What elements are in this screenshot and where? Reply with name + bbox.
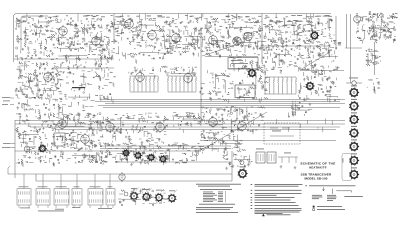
tube V27 lamp (119, 172, 125, 182)
tube V10 (354, 14, 361, 24)
wire bus y174 (8, 173, 232, 175)
wire mid bus3 (103, 107, 340, 109)
wire v x114 (113, 14, 115, 45)
node bottom small parts (118, 188, 168, 206)
wire h y46 right (262, 45, 330, 47)
note under title (305, 184, 307, 187)
relay K1 box (235, 85, 255, 98)
node B6 (262, 44, 301, 73)
node socket index outline (342, 154, 352, 181)
node socket header (346, 78, 362, 86)
tube V3 (125, 18, 134, 30)
wire v x232 low (231, 151, 233, 181)
tube socket V12 (306, 82, 315, 91)
wire bus y162 (115, 161, 232, 163)
wire col feed a (346, 14, 348, 48)
node B8 right parts (366, 48, 381, 66)
tube socket V9 (310, 31, 319, 40)
node C5 (237, 65, 269, 103)
tube socket S3 (349, 112, 359, 124)
node coil bar (72, 87, 85, 88)
wire top bus stubs (27, 14, 313, 22)
symbol legend filled (313, 206, 315, 208)
node D6 (201, 133, 246, 156)
node switch comb3 (264, 77, 296, 94)
node D5 (164, 143, 204, 164)
wire mid bus1b (95, 101, 340, 103)
transformer T4 (72, 186, 82, 208)
tube socket S7 (349, 167, 359, 179)
wire coil drops (23, 174, 25, 189)
wire left rail2 (21, 16, 48, 50)
node output stage (240, 149, 298, 170)
node A7 stage (225, 18, 264, 49)
tube V23 (81, 133, 90, 145)
wire diag2 (300, 52, 330, 70)
wire v x201 (200, 30, 202, 122)
wire bus y140 (200, 140, 336, 142)
wire mid bus2b (98, 105, 300, 107)
wire bus y151 (15, 150, 201, 152)
node A2 mixer (55, 18, 103, 47)
wire h y70 right (300, 70, 344, 72)
wire v x262 (261, 14, 263, 63)
tube socket V24 wafer a (122, 149, 130, 157)
node switch comb1 (129, 76, 158, 92)
tube V20 (209, 116, 218, 128)
wire v x336 (335, 16, 337, 48)
tube V2 (92, 35, 101, 47)
tube socket V22 rotary (39, 144, 47, 152)
node right corner small parts (367, 79, 379, 94)
node A10 corner stage (356, 11, 398, 43)
wire v x15 low (14, 120, 16, 178)
tube socket V26 wafer c (147, 154, 155, 162)
node D1 (16, 130, 59, 167)
wire main busA (15, 120, 345, 122)
wire right rail (374, 42, 376, 75)
node B7 (300, 40, 341, 75)
node A6 stage (200, 18, 225, 51)
wire col feed b (350, 14, 352, 83)
node left margin terminals2 (2, 143, 15, 148)
wire bus y181 (36, 180, 232, 182)
node A3 if amp (100, 18, 139, 46)
tree text block 3 (344, 195, 363, 198)
node left margin terminals (2, 97, 14, 105)
tube V1 (59, 25, 68, 37)
tube socket S8 relay socket (238, 166, 248, 178)
parts list column (196, 184, 241, 213)
tube V16 (184, 72, 193, 84)
wire diag3 (202, 42, 245, 56)
node B3 (164, 42, 198, 57)
tube V13 (44, 71, 53, 83)
node A5 stage (168, 18, 203, 51)
coil row labels (38, 210, 64, 213)
title block (300, 162, 335, 181)
tube socket S2 (349, 99, 359, 111)
transformer T2 (36, 186, 50, 208)
symbol legend open (313, 209, 315, 211)
tree text block 1 (312, 195, 323, 199)
switch position tree (323, 187, 352, 194)
tube socket S1 (349, 85, 359, 97)
node rotary wafer row (124, 188, 177, 203)
tube V17 (58, 118, 67, 130)
node labels mixer area (269, 20, 310, 22)
tube V5 (172, 32, 181, 44)
node C1 left-mid dense (15, 72, 64, 104)
tube socket V25 wafer b (134, 152, 142, 160)
node C10 small (288, 100, 312, 117)
node C6 (298, 67, 339, 102)
node D4 (103, 130, 167, 144)
tube V28 meter (24, 144, 30, 153)
tube socket V26b wafer d (159, 155, 167, 163)
tube V21 (238, 120, 247, 132)
transformer T3 (54, 186, 69, 208)
wire col h48 (345, 47, 362, 49)
tube socket S4 (349, 126, 359, 138)
tube V4 (148, 29, 157, 41)
node D7 (223, 151, 253, 170)
node labels mixer area2 (263, 24, 314, 26)
meter box (54, 133, 65, 146)
node A9 stage (295, 18, 337, 49)
tube V18 (106, 121, 115, 133)
node switch comb2 (167, 76, 196, 92)
node B1 left dense (15, 41, 112, 74)
node D3 dense switch (100, 143, 169, 166)
node A4 stage (135, 18, 171, 50)
tube V7 (233, 37, 241, 45)
node C9 (200, 106, 266, 134)
wire mid bus2 (105, 103, 345, 105)
tube V19 (156, 121, 165, 133)
wire mid bus stubs (25, 116, 332, 132)
svg-text:HEATHKIT®: HEATHKIT® (309, 166, 327, 170)
calibrator box (228, 58, 258, 70)
wire top bus (14, 14, 332, 63)
svg-text:MODEL SB-100: MODEL SB-100 (305, 176, 328, 180)
node B5 box area (228, 57, 263, 72)
node D5b gap (58, 150, 102, 163)
transformer T6 (106, 186, 115, 208)
tube V6 (209, 34, 218, 46)
tube socket S6 (349, 153, 359, 165)
tube V8 (244, 32, 252, 40)
node C1b mid lighter (60, 72, 116, 103)
tube socket V11 het osc (248, 69, 257, 78)
node C8 (85, 112, 202, 133)
wire diag1 (205, 112, 267, 148)
node title side mark (342, 158, 343, 163)
wire main busC (30, 126, 340, 128)
tube socket S5 (349, 139, 359, 151)
transformer T5 (88, 186, 103, 208)
wire cable bundle (100, 145, 231, 147)
wire left hook (8, 166, 10, 174)
wire v x36 (35, 174, 37, 181)
node A8 stage (262, 18, 299, 47)
tree text block 2 (327, 195, 337, 201)
svg-text:SCHEMATIC OF THE: SCHEMATIC OF THE (300, 162, 335, 166)
node C4 (199, 70, 234, 103)
node B2 sparse (110, 46, 167, 63)
numbered notes column (251, 184, 303, 216)
node C8b gap parts (56, 100, 95, 132)
node A1 xtal osc (15, 18, 55, 45)
wire h y59 (14, 58, 114, 60)
node D2 (59, 130, 103, 150)
wire main busB (15, 123, 345, 125)
wire mid bus1 (100, 99, 345, 101)
tube V15 (136, 71, 145, 83)
node top labels (22, 15, 332, 18)
node C3 above combs (129, 66, 197, 79)
dashed enclosure (264, 123, 300, 144)
wire main busD (55, 129, 336, 131)
node C7 left lower (16, 100, 62, 133)
wire h y56 mid (205, 56, 258, 58)
transformer T1 (17, 186, 31, 208)
node B4 (201, 39, 263, 57)
